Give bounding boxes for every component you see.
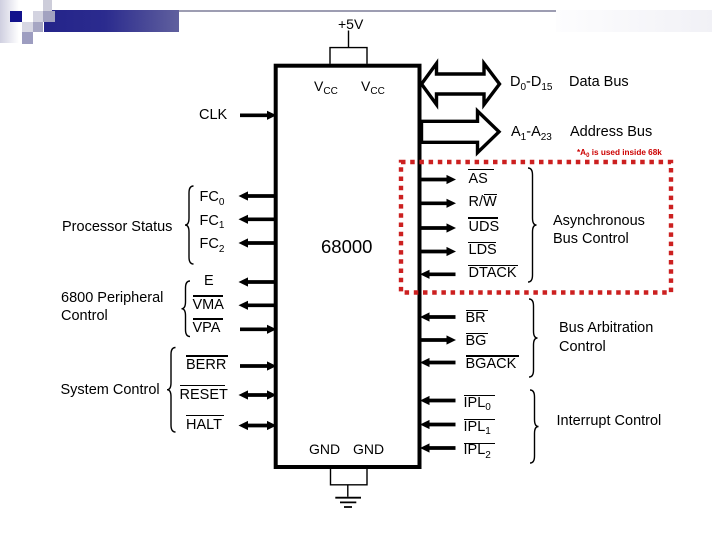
label IPL2 xyxy=(464,443,491,458)
label FC0 xyxy=(200,190,225,205)
label CLK xyxy=(199,108,227,123)
overline HALT xyxy=(186,415,224,417)
label IPL0 xyxy=(464,396,491,411)
label E xyxy=(204,274,214,289)
label D0-D15 xyxy=(510,75,552,90)
overline BG xyxy=(466,333,488,335)
GND wire xyxy=(331,469,368,497)
label R/W xyxy=(469,195,497,210)
brace bus arbitration control group xyxy=(529,299,538,377)
label FC1 xyxy=(200,214,225,229)
label BG xyxy=(466,334,487,349)
pin VMA arrow (output) xyxy=(239,301,278,310)
IC U1 68000 package outline xyxy=(276,66,420,467)
label VMA xyxy=(193,298,224,313)
pin FC0 arrow (output) xyxy=(239,191,278,200)
overline BGACK xyxy=(466,355,519,357)
label AS xyxy=(469,172,488,187)
pin IPL2 arrow (input) xyxy=(420,443,456,452)
brace system control group xyxy=(167,348,176,433)
pin RESET arrow (bidirectional) xyxy=(239,390,277,399)
note A0 used inside xyxy=(577,149,662,157)
address bus hollow arrow xyxy=(422,111,500,153)
overline VMA xyxy=(193,295,224,297)
pin CLK arrow (input) xyxy=(240,111,277,120)
pin HALT arrow (bidirectional) xyxy=(239,421,277,430)
label Interrupt Control xyxy=(557,414,662,429)
pin AS arrow (output) xyxy=(422,175,457,184)
asynchronous bus control group red dashed box xyxy=(401,162,671,293)
brace processor status group xyxy=(185,186,194,264)
pin IPL0 arrow (input) xyxy=(420,396,456,405)
label DTACK xyxy=(469,266,517,281)
label A1-A23 xyxy=(511,125,552,140)
label 68000 xyxy=(321,238,372,257)
label BGACK xyxy=(466,357,517,372)
pin DTACK arrow (input) xyxy=(420,270,456,279)
brace interrupt control group xyxy=(530,390,539,463)
overline VPA xyxy=(193,318,223,320)
label VCC pin 1 xyxy=(314,79,338,94)
label Bus Arbitration xyxy=(559,321,653,336)
pin LDS arrow (output) xyxy=(422,247,457,256)
overline IPL0 xyxy=(464,395,495,397)
pin BERR arrow (input) xyxy=(240,361,277,370)
overline IPL1 xyxy=(464,419,495,421)
pin BR arrow (input) xyxy=(420,312,456,321)
label RESET xyxy=(180,388,228,403)
overline W of R/W xyxy=(484,194,497,196)
pin VPA arrow (input) xyxy=(240,325,277,334)
label System Control xyxy=(61,383,160,398)
overline RESET xyxy=(180,385,226,387)
pin FC2 arrow (output) xyxy=(239,238,278,247)
label Address Bus xyxy=(570,125,652,140)
label GND pin 1 xyxy=(309,442,340,456)
brace 6800 peripheral control group xyxy=(182,281,191,337)
overline AS xyxy=(468,169,494,171)
+5V supply wire xyxy=(330,31,367,64)
pin E arrow (output) xyxy=(239,277,278,286)
label VCC pin 2 xyxy=(361,79,385,94)
label GND pin 2 xyxy=(353,442,384,456)
label IPL1 xyxy=(464,420,491,435)
pin UDS arrow (output) xyxy=(422,223,457,232)
overline IPL2 xyxy=(464,443,495,445)
label BR xyxy=(466,311,486,326)
overline BR xyxy=(466,310,488,312)
label Control (arbitration) xyxy=(559,340,606,355)
label Bus Control (async) xyxy=(553,232,629,247)
pin BGACK arrow (input) xyxy=(420,358,456,367)
pin FC1 arrow (output) xyxy=(239,215,278,224)
pin IPL1 arrow (input) xyxy=(420,420,456,429)
label Data Bus xyxy=(569,75,629,90)
brace asynchronous bus control group xyxy=(528,168,537,282)
label Control (6800) xyxy=(61,309,108,324)
label Asynchronous xyxy=(553,214,645,229)
pin R/W arrow (output) xyxy=(422,199,457,208)
label LDS xyxy=(469,243,497,258)
data bus double hollow arrow xyxy=(422,64,500,105)
overline DTACK xyxy=(468,265,518,267)
label +5V xyxy=(338,17,363,31)
label FC2 xyxy=(200,237,225,252)
overline BERR xyxy=(186,355,228,357)
label UDS xyxy=(469,220,500,235)
label BERR xyxy=(186,358,226,373)
ground symbol xyxy=(335,498,361,507)
overline LDS xyxy=(468,242,496,244)
label Processor Status xyxy=(62,220,172,235)
label 6800 Peripheral xyxy=(61,291,163,306)
label VPA xyxy=(193,321,221,336)
pin BG arrow (output) xyxy=(422,335,457,344)
label HALT xyxy=(186,418,222,433)
overline UDS xyxy=(468,217,498,219)
